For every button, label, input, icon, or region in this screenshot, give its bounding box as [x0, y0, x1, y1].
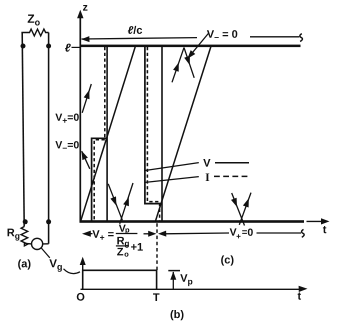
pulse waveform Vg [83, 270, 157, 289]
legend I dashed sample line [214, 175, 250, 177]
wire trailing-edge characteristic [155, 47, 210, 221]
generator source Vg circle [31, 238, 42, 249]
wire I snapshot S2 (dashed staircase) [147, 47, 159, 221]
label Vg with leader from source [41, 248, 50, 258]
node dot top-right (z=l terminal) [46, 44, 51, 49]
label (c) [221, 255, 233, 265]
dimension arrows at T [144, 233, 151, 235]
arrow pair V2: reflected ray at z=0 (right) [239, 193, 251, 225]
label l (script ell) [65, 44, 71, 52]
extent line for V-=0 region [250, 36, 299, 38]
node dot bottom-right (z=0 terminal) [46, 219, 51, 224]
label l/c [128, 26, 142, 34]
wire right vertical (line input) [48, 33, 50, 244]
wire generator left lead [24, 242, 31, 245]
node dot top-left (z=l terminal) [21, 44, 26, 49]
z=l line (far end, thick) [80, 45, 301, 48]
fraction Vp over (Rg/Z0 + 1) [119, 225, 126, 232]
tick at z=l on axis [72, 46, 80, 48]
label Vp [180, 274, 192, 286]
label V+ = [92, 230, 113, 239]
wire leading-edge characteristic [81, 47, 136, 221]
node t1 constant-time line [106, 47, 108, 221]
arrow pair top: incident ray at z=l [172, 48, 184, 83]
leader curve from Vg to pulse waveform [64, 269, 81, 274]
label t (c axis) [323, 226, 326, 233]
arrow A2 wave direction near z axis (head up-left) [82, 151, 90, 169]
t axis (z=0 line, thick) [80, 220, 305, 223]
extent line right of V+=0 [257, 232, 302, 234]
arrow A1 wave direction near z axis (up) [82, 84, 91, 113]
z axis [79, 14, 81, 223]
label O [77, 293, 85, 301]
Vg axis vertical of (b) [82, 260, 84, 290]
wire generator right lead [43, 243, 49, 245]
label V+=0 (left) [55, 113, 78, 122]
wire left vertical (to generator) [22, 33, 24, 227]
label (a) [18, 259, 30, 269]
wire I snapshot S1 (dashed staircase) [94, 47, 105, 221]
arrow pair V2: incident ray at z=0 (right) [232, 193, 245, 226]
left arrowhead of V+ region [82, 231, 91, 237]
label t (b axis) [298, 292, 301, 299]
label Rg [8, 229, 20, 241]
legend label I [206, 173, 210, 181]
label (b) [171, 310, 184, 320]
label Z0 [28, 15, 40, 26]
t axis arrow segment [307, 220, 324, 222]
label z [83, 5, 87, 11]
resistor Rg (generator internal resistance) [21, 227, 28, 246]
l/c dimension line with left arrowhead [82, 38, 198, 39]
node dot bottom-left (z=0 terminal) [23, 219, 28, 224]
arrow pair V1: reflected ray at z=0 [120, 183, 133, 224]
t axis baseline of (b) [81, 288, 303, 290]
resistor Z0 (matched termination at far end) [21, 29, 48, 36]
wire V snapshot S1 (solid staircase) [92, 138, 108, 221]
dashed connector at t=T [156, 223, 158, 270]
wire V snapshot S2 (solid staircase) [145, 47, 162, 204]
arrow pair top: reflected ray at z=l [184, 48, 194, 78]
end tick squiggle (bottom right) [302, 229, 305, 237]
arrow pair V1: incident ray at z=0 [108, 184, 122, 221]
Vp dimension marker [168, 270, 180, 272]
node t2 constant-time line [161, 47, 163, 221]
label T [153, 293, 159, 301]
label V-=0 with leader arrow [190, 34, 209, 57]
label V+ = 0 (bottom right) [230, 228, 237, 235]
leader from I legend to dashed staircase [145, 177, 199, 183]
leader from V legend to solid staircase [144, 163, 199, 171]
end tick squiggle (top right) [300, 34, 303, 42]
extent line to V+=0 label [164, 232, 230, 235]
legend V solid sample line [215, 162, 249, 164]
legend label V [203, 159, 210, 167]
label V-=0 (left) [55, 141, 78, 149]
